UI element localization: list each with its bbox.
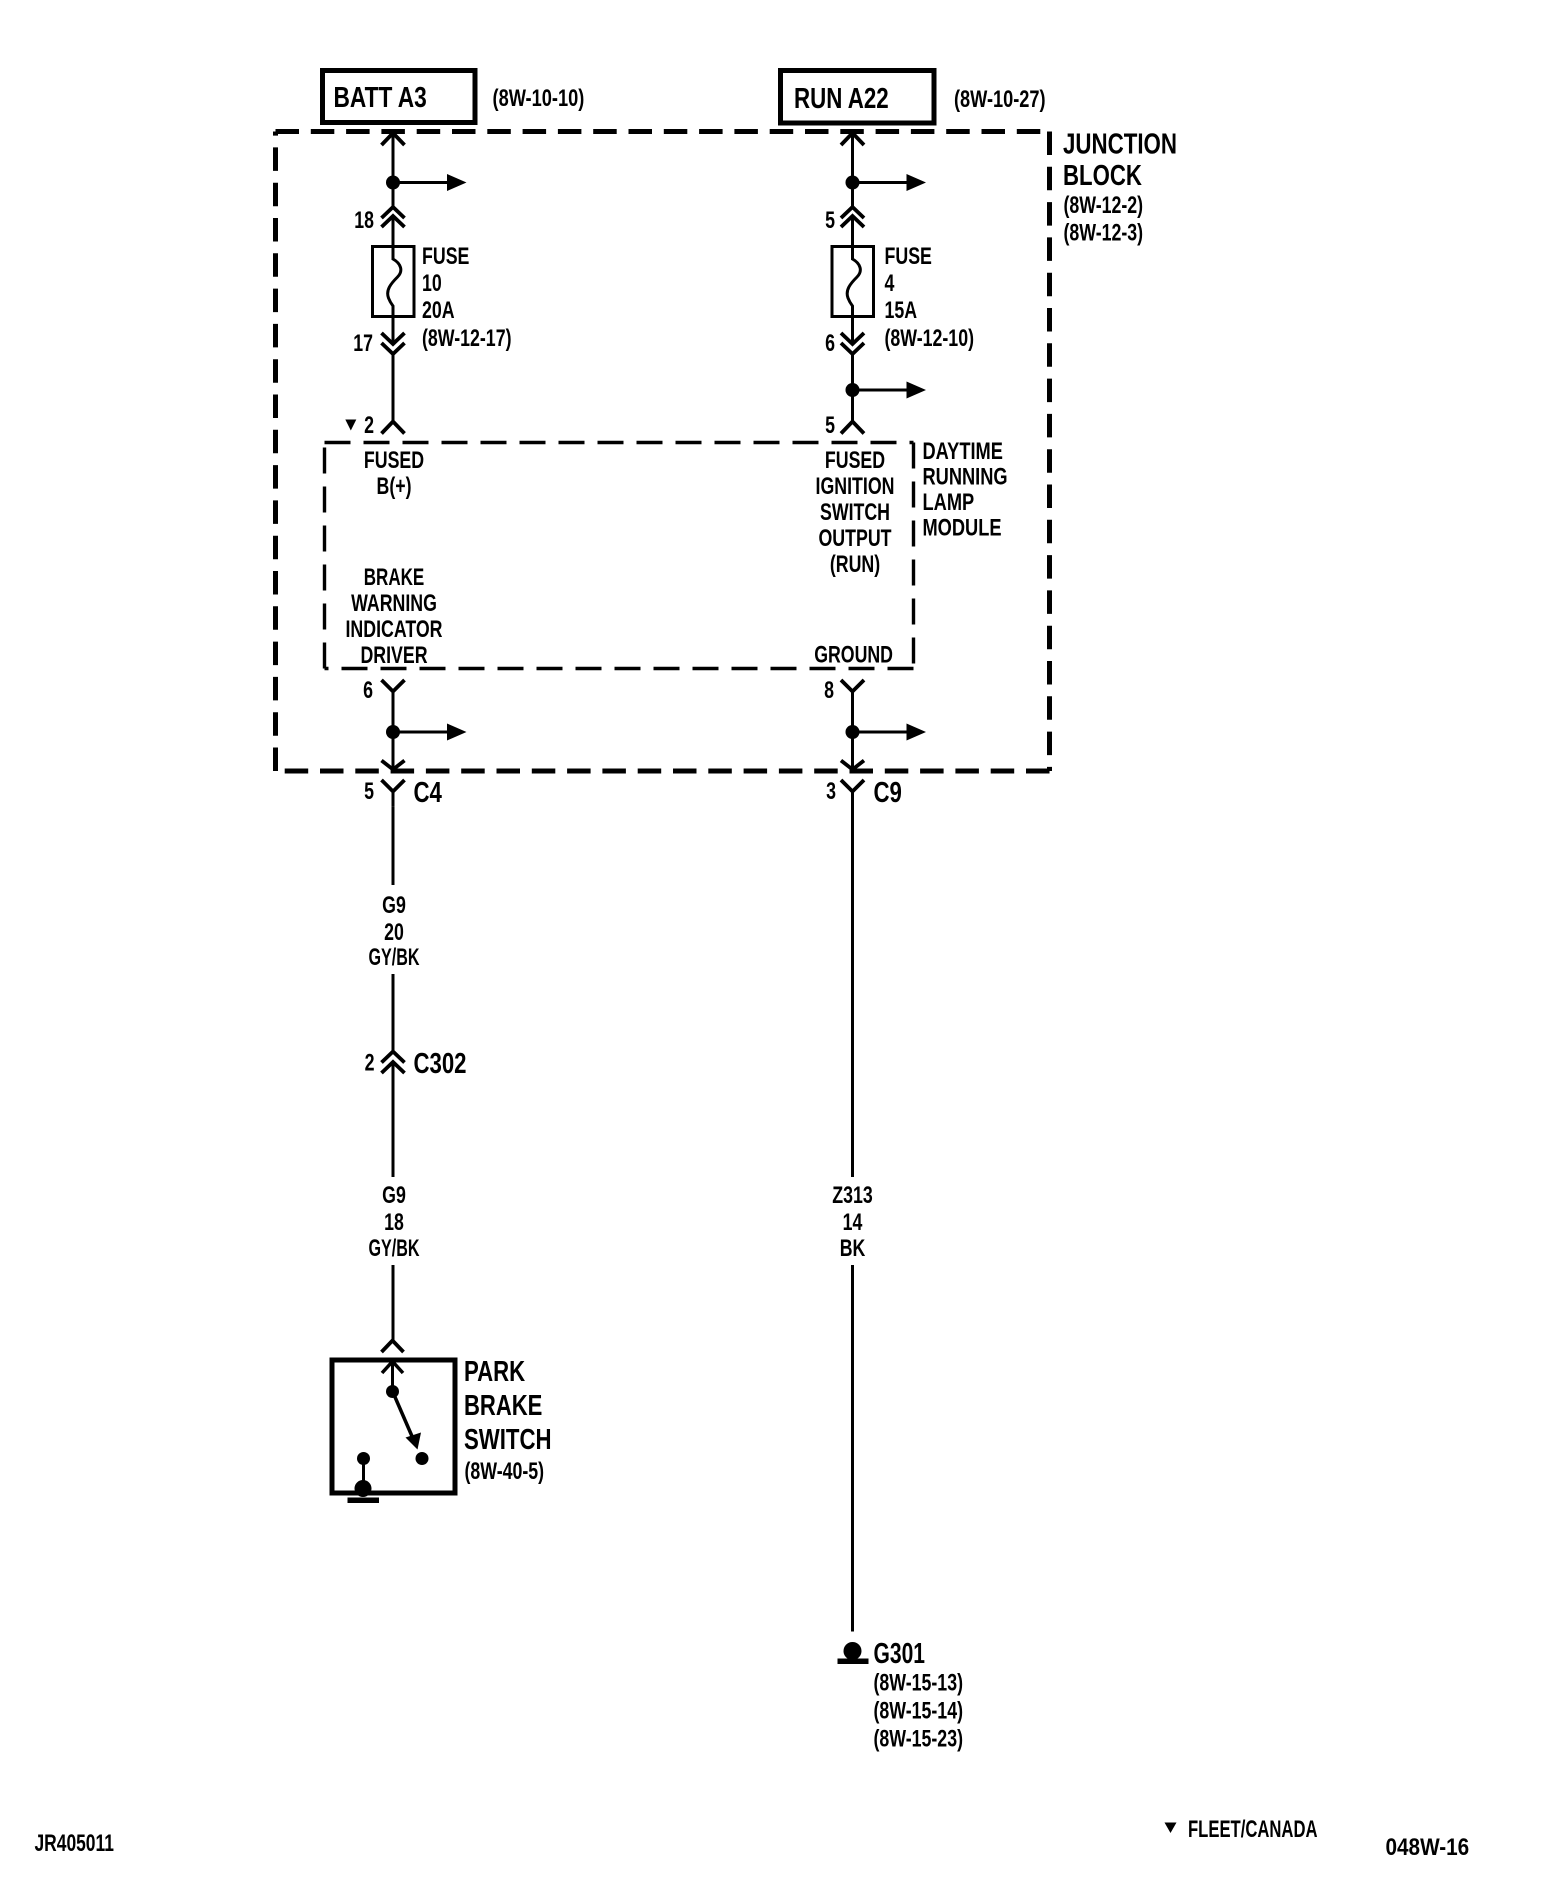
svg-text:INDICATOR: INDICATOR [346,616,443,643]
fleet marker triangle at pin 2 [345,420,356,431]
connector chevrons pin 5 [841,207,864,227]
wire label G9 18 GY/BK [369,1182,420,1262]
svg-text:(8W-15-13): (8W-15-13) [874,1670,964,1697]
svg-text:14: 14 [843,1209,863,1236]
connector chevrons pin 17 [382,333,405,354]
label (8W-10-27) [954,86,1046,113]
node right output splice [846,724,927,741]
svg-text:(8W-12-17): (8W-12-17) [422,325,512,352]
svg-text:G9: G9 [382,1182,406,1209]
node right splice 2 [846,382,927,399]
wire label Z313 14 BK [832,1182,873,1262]
footer page number 048W-16 [1386,1834,1470,1861]
wire G9 upper segment [392,807,395,885]
module pin label FUSED B(+) [364,447,424,500]
svg-text:BATT A3: BATT A3 [334,82,427,114]
ground G301 symbol [838,1642,869,1664]
arrow down at junction block exit right [841,761,864,770]
svg-text:Z313: Z313 [832,1182,873,1209]
svg-text:SWITCH: SWITCH [464,1424,552,1456]
svg-text:17: 17 [353,330,373,357]
svg-text:048W-16: 048W-16 [1386,1834,1470,1861]
svg-text:PARK: PARK [464,1356,525,1388]
svg-text:JR405011: JR405011 [35,1830,114,1857]
wire G9 lower segment [392,1063,395,1178]
junction block dashed border [276,132,1050,772]
daytime running lamp module dashed box [325,443,914,669]
module pin label FUSED IGNITION SWITCH OUTPUT (RUN) [816,447,895,578]
connector chevrons pin 18 [382,207,405,227]
node right feed splice [846,174,927,191]
terminal box BATT A3 [323,71,476,123]
pin 6 label right [825,330,835,357]
pin 5 label lower right [825,412,835,439]
arrow up into RUN A22 [841,133,864,145]
svg-text:IGNITION: IGNITION [816,473,895,500]
svg-text:BLOCK: BLOCK [1063,160,1142,192]
svg-text:G9: G9 [382,892,406,919]
node left output splice [386,724,467,741]
svg-text:BRAKE: BRAKE [464,1390,542,1422]
connector Y at park brake switch [382,1341,404,1353]
arrow up into BATT A3 [382,133,405,145]
svg-text:OUTPUT: OUTPUT [819,525,892,552]
wire left feed (BATT to fuse) [392,133,395,246]
svg-text:5: 5 [364,778,374,805]
wire into park brake switch [392,1265,395,1340]
svg-text:GY/BK: GY/BK [369,944,420,971]
wire label G9 20 GY/BK [369,892,420,971]
svg-text:5: 5 [825,207,835,234]
svg-text:(8W-12-3): (8W-12-3) [1064,220,1144,247]
svg-text:LAMP: LAMP [923,489,975,516]
node left feed splice [386,174,467,191]
svg-text:FLEET/CANADA: FLEET/CANADA [1188,1816,1318,1843]
connector Y pin 2 [382,422,405,434]
connector Y pin 5 [841,422,864,434]
label (8W-10-10) [493,85,585,112]
svg-text:C302: C302 [414,1048,467,1080]
svg-text:(8W-15-23): (8W-15-23) [874,1726,964,1753]
connector Y pin 6 [382,680,405,732]
module pin label GROUND [814,642,893,669]
svg-text:(8W-15-14): (8W-15-14) [874,1698,964,1725]
svg-text:DRIVER: DRIVER [360,642,427,669]
svg-text:3: 3 [826,778,836,805]
svg-text:(8W-12-10): (8W-12-10) [885,325,975,352]
svg-text:FUSE: FUSE [422,243,469,270]
footer fleet marker [1165,1816,1318,1843]
svg-text:5: 5 [825,412,835,439]
wire left output to C4 [392,732,395,769]
terminal box RUN A22 [781,71,935,124]
connector C9 [841,777,902,809]
svg-text:(8W-10-27): (8W-10-27) [954,86,1046,113]
wire Z313 upper segment [851,792,854,1178]
svg-text:6: 6 [825,330,835,357]
svg-text:(8W-40-5): (8W-40-5) [465,1458,545,1485]
svg-text:FUSED: FUSED [825,447,885,474]
junction block title [1063,129,1177,247]
pin 8 label [824,677,834,704]
svg-text:FUSE: FUSE [885,243,932,270]
footer sheet number JR405011 [35,1830,114,1857]
fuse 4 labels [885,243,975,352]
svg-text:20: 20 [384,919,404,946]
park brake switch internal ground [348,1480,380,1503]
wire right (fuse to DRL module) [851,316,854,421]
svg-text:FUSED: FUSED [364,447,424,474]
svg-text:4: 4 [885,270,895,297]
svg-text:6: 6 [363,677,373,704]
svg-text:2: 2 [365,1050,375,1077]
wire left (fuse to DRL module) [392,316,395,421]
park brake switch blade [395,1397,421,1450]
svg-text:WARNING: WARNING [351,590,437,617]
fuse 10 body [373,246,415,317]
svg-text:8: 8 [824,677,834,704]
svg-text:B(+): B(+) [377,473,412,500]
pin 2 label at C302 [365,1050,375,1077]
park brake switch contact 2 [416,1452,429,1465]
svg-text:BRAKE: BRAKE [364,564,425,591]
svg-text:10: 10 [422,270,442,297]
ground G301 references [874,1670,964,1753]
svg-text:C4: C4 [414,777,442,809]
svg-text:DAYTIME: DAYTIME [923,438,1003,465]
svg-text:(8W-12-2): (8W-12-2) [1064,192,1144,219]
module pin label BRAKE WARNING INDICATOR DRIVER [346,564,443,669]
park brake switch common contact [386,1385,399,1398]
pin 5 label at C4 [364,778,374,805]
connector Y pin 8 [841,680,864,732]
arrow down at junction block exit left [382,761,405,770]
svg-text:GY/BK: GY/BK [369,1235,420,1262]
svg-text:20A: 20A [422,297,455,324]
wire Z313 lower segment [851,1265,854,1632]
park brake switch pin arrow [382,1362,403,1392]
park brake switch contact 3 [357,1452,370,1484]
svg-text:MODULE: MODULE [923,515,1002,542]
svg-text:RUN A22: RUN A22 [794,83,889,115]
ground label G301 [874,1638,926,1670]
wire G9 to C302 [392,974,395,1051]
park brake switch label [464,1356,552,1485]
fuse 10 labels [422,243,512,352]
svg-text:G301: G301 [874,1638,926,1670]
pin 6 label bottom left [363,677,373,704]
connector chevrons pin 6 [841,333,864,354]
module name DAYTIME RUNNING LAMP MODULE [923,438,1008,542]
pin 5 label top right [825,207,835,234]
svg-text:(RUN): (RUN) [830,551,880,578]
pin 17 label [353,330,373,357]
pin 18 label [354,207,374,234]
pin 3 label at C9 [826,778,836,805]
wire right output to C9 [851,732,854,769]
svg-text:SWITCH: SWITCH [820,499,890,526]
svg-text:BK: BK [840,1235,866,1262]
connector C302 [382,1048,467,1080]
park brake switch box [332,1360,455,1493]
svg-text:(8W-10-10): (8W-10-10) [493,85,585,112]
svg-text:15A: 15A [885,297,918,324]
pin 2 label [364,412,374,439]
fuse 4 body [832,246,874,317]
svg-text:C9: C9 [874,777,902,809]
svg-text:JUNCTION: JUNCTION [1063,129,1177,161]
svg-text:RUNNING: RUNNING [923,464,1008,491]
svg-text:18: 18 [384,1209,404,1236]
svg-text:2: 2 [364,412,374,439]
svg-text:GROUND: GROUND [814,642,893,669]
wire right feed (RUN to fuse) [851,133,854,246]
svg-text:18: 18 [354,207,374,234]
connector C4 [382,777,442,809]
